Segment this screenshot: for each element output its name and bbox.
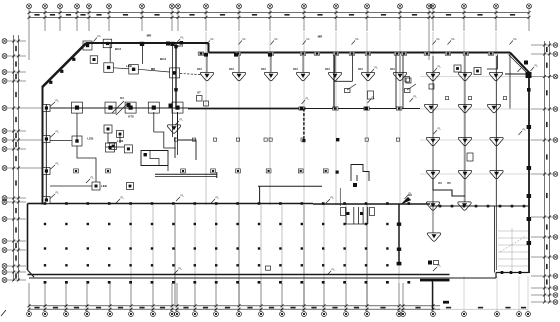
label FL leader: [518, 65, 526, 73]
vertical grid line lower: [152, 205, 154, 306]
dimension text mark: [53, 307, 58, 309]
bottom grid line 2: [44, 283, 46, 312]
stair dashed arrow: [500, 236, 526, 252]
svg-text:FL: FL: [216, 196, 220, 200]
svg-text:D13: D13: [197, 68, 202, 71]
hall column dot: [365, 223, 367, 225]
vertical grid line lower: [130, 205, 132, 306]
dim tick: [543, 275, 546, 278]
fire-damper symbol: [264, 72, 277, 80]
dim tick: [432, 11, 435, 14]
dim tick: [543, 236, 546, 239]
dashed wire to triangle: [180, 74, 202, 75]
bottom grid bubble 13: [259, 312, 264, 317]
building outline top edge right part: [209, 52, 511, 54]
dim tick: [17, 71, 20, 74]
small column y139: [174, 138, 177, 141]
dimension text mark: [349, 14, 354, 16]
top grid line 2: [44, 9, 46, 31]
dim tick: [17, 265, 20, 268]
dim tick: [28, 16, 31, 19]
right grid bubble 10: [553, 274, 558, 279]
svg-text:FL: FL: [179, 267, 183, 271]
bottom edge continues thin: [450, 277, 497, 279]
hall column dot: [258, 264, 260, 266]
dim tick: [495, 16, 498, 19]
bottom grid line 15: [303, 283, 305, 312]
dimension text mark: [154, 14, 159, 16]
bottom edge column dot: [322, 281, 325, 284]
dim tick: [86, 304, 89, 307]
dimension text mark: [15, 156, 17, 161]
bottom dimension line lower: [29, 308, 440, 310]
dimension text mark: [546, 63, 548, 68]
dim tick: [269, 16, 272, 19]
label FL leader: [327, 268, 335, 276]
dim tick: [12, 148, 15, 151]
dimension text mark: [50, 14, 55, 16]
top grid line 16: [399, 9, 401, 31]
left grid line 8: [7, 148, 26, 150]
wall x=259.6 down: [259, 186, 261, 204]
dim tick: [12, 71, 15, 74]
tick on y206 wall: [511, 205, 514, 208]
wall top dot: [129, 202, 132, 205]
dim tick: [345, 304, 348, 307]
svg-text:LEB: LEB: [126, 64, 132, 68]
dimension text mark: [521, 307, 526, 309]
top grid line 21: [528, 9, 530, 31]
fire-damper symbol: [232, 72, 245, 80]
box on diagonal: [90, 56, 98, 64]
bottom edge column dot: [279, 281, 282, 284]
label FL leader: [405, 192, 413, 200]
dimension text mark: [284, 14, 289, 16]
vertical grid line lower: [323, 205, 325, 306]
dim tick: [215, 308, 218, 311]
dim tick: [152, 304, 155, 307]
dimension text mark: [15, 142, 17, 147]
hall column dot: [194, 264, 196, 266]
box at (96,186): [92, 182, 100, 190]
dim tick: [176, 304, 179, 307]
dim tick: [109, 308, 112, 311]
dimension text mark: [546, 279, 548, 284]
dimension text mark: [311, 307, 316, 309]
bottom grid bubble 21: [431, 312, 436, 317]
room wall x=334: [333, 53, 335, 109]
column: [454, 65, 461, 72]
small box: [503, 97, 506, 100]
dim tick: [463, 11, 466, 14]
wall column tick: [365, 52, 371, 55]
svg-text:FL: FL: [438, 65, 442, 69]
small column y171: [106, 169, 111, 173]
box at (110,147): [106, 143, 115, 152]
right grid line 6: [531, 173, 553, 175]
dim tick: [432, 308, 435, 311]
right grid bubble 9: [553, 255, 558, 260]
svg-text:FL: FL: [306, 97, 310, 101]
dim tick: [548, 301, 551, 304]
restroom wall bottom: [346, 223, 368, 225]
hall column dot: [386, 264, 388, 266]
dim tick: [548, 75, 551, 78]
dim tick: [463, 16, 466, 19]
bottom grid bubble 6: [129, 312, 134, 317]
label FL leader: [352, 37, 360, 45]
hall column dot: [194, 223, 196, 225]
bottom edge column dot: [215, 281, 218, 284]
hall column dot: [44, 264, 46, 266]
dimension text mark: [317, 14, 322, 16]
wall top dot: [215, 202, 218, 205]
fixture: [370, 208, 375, 216]
svg-text:D13: D13: [390, 68, 395, 71]
top grid line 19: [463, 9, 465, 31]
label FL leader: [433, 37, 441, 45]
left grid bubble 17: [2, 278, 7, 283]
label FL leader: [50, 162, 59, 170]
left small room walls near (140-168,150-171): [141, 151, 168, 166]
hall column dot: [65, 264, 67, 266]
box cluster c: [110, 143, 117, 150]
top grid bubble 13: [302, 4, 307, 9]
wall column tick: [396, 107, 402, 110]
top grid line 1: [28, 9, 30, 60]
dimension text mark: [118, 307, 123, 309]
dimension text mark: [34, 14, 39, 16]
label FL leader: [433, 264, 441, 272]
left grid line 10: [7, 197, 26, 199]
left grid bubble 9: [2, 166, 7, 171]
filled column on edge: [234, 53, 238, 57]
hall column dot: [279, 223, 281, 225]
svg-text:FL: FL: [307, 37, 311, 41]
wall column tick: [445, 52, 451, 55]
small rect (406,78): [405, 77, 410, 83]
hall column dot: [322, 264, 324, 266]
top grid line 4: [76, 9, 78, 31]
hall column dot: [301, 264, 303, 266]
dim tick: [548, 53, 551, 56]
bottom grid bubble 10: [193, 312, 198, 317]
dim tick: [44, 11, 47, 14]
wire y=140 left: [50, 140, 72, 142]
feeder wire along diagonal (thickened): [43, 44, 87, 88]
jumper diagonals near x=120: [112, 101, 124, 113]
dimension text mark: [415, 307, 420, 309]
dim tick: [428, 11, 431, 14]
restroom partitions: [345, 207, 347, 224]
wall column tick: [424, 52, 430, 55]
dim tick: [12, 55, 15, 58]
svg-text:FL: FL: [535, 64, 539, 68]
bottom grid bubble 19: [397, 312, 402, 317]
dim tick: [44, 308, 47, 311]
svg-text:D3: D3: [438, 181, 442, 185]
wire box on diagonal: [60, 70, 63, 73]
left grid bubble 6: [2, 129, 7, 134]
vertical grid line: [269, 32, 271, 205]
hall column dot: [172, 223, 174, 225]
hall column dot: [343, 247, 345, 249]
dim tick: [86, 308, 89, 311]
wall below chamfer x=510: [509, 53, 511, 109]
dim tick: [152, 308, 155, 311]
dimension text mark: [546, 47, 548, 52]
dimension text mark: [546, 244, 548, 249]
dim tick: [171, 16, 174, 19]
bottom edge column dot: [258, 281, 261, 284]
small column y171: [181, 169, 186, 173]
dimension text mark: [96, 14, 101, 16]
left grid bubble 11: [2, 200, 7, 205]
vertical grid line: [205, 32, 207, 205]
wall top dot: [87, 202, 90, 205]
dim tick: [171, 304, 174, 307]
svg-text:LOB: LOB: [117, 139, 123, 143]
hall column dot: [215, 247, 217, 249]
hall column dot: [151, 247, 153, 249]
dark column at wall joint: [300, 107, 304, 111]
left edge column: [43, 197, 50, 204]
hall top wall right part: [313, 203, 430, 205]
BA mark near (402,202): [402, 198, 411, 204]
bottom grid bubble 3: [64, 312, 69, 317]
wire box on diagonal: [72, 58, 75, 61]
right grid bubble 6: [553, 172, 558, 177]
bottom grid bubble 18: [365, 312, 370, 317]
dim tick: [12, 139, 15, 142]
fire-damper symbol: [426, 170, 439, 178]
wall top dot: [258, 202, 261, 205]
dimension text mark: [220, 14, 225, 16]
dimension text mark: [183, 307, 188, 309]
wall column tick: [394, 52, 400, 55]
svg-text:FL: FL: [243, 37, 247, 41]
hall column dot: [301, 223, 303, 225]
label FL leader: [175, 118, 183, 126]
left grid line 16: [7, 271, 26, 273]
left riser wire x=46: [45, 104, 47, 200]
dim tick: [548, 139, 551, 142]
small box: [445, 97, 448, 100]
bottom grid line 6: [130, 283, 132, 312]
wire y=68: [114, 68, 129, 69]
wire y=69 stub: [487, 68, 498, 70]
small column y139: [269, 138, 272, 141]
top grid bubble 9: [176, 4, 181, 9]
bottom edge column dot: [300, 281, 303, 284]
vertical grid line lower: [194, 205, 196, 306]
dim tick: [17, 240, 20, 243]
bottom grid bubble 22: [462, 312, 467, 317]
dim tick: [398, 304, 401, 307]
bottom grid bubble 16: [322, 312, 327, 317]
bottom grid line 22: [463, 276, 465, 312]
dimension text mark: [446, 307, 451, 309]
wall top dot: [44, 202, 47, 205]
dimension text mark: [96, 307, 101, 309]
horizontal grid line right: [420, 173, 531, 175]
dim tick: [44, 304, 47, 307]
small box (431,86): [429, 84, 434, 89]
wall y=186: [258, 185, 322, 187]
vertical grid line: [399, 32, 401, 205]
svg-text:FL: FL: [375, 66, 379, 70]
fire-damper symbol: [393, 72, 406, 80]
bottom grid bubble 5: [108, 312, 113, 317]
left grid line 7: [7, 139, 42, 141]
dark mark (337,172): [336, 171, 339, 174]
left edge column: [43, 136, 50, 143]
bottom dimension line upper: [29, 305, 440, 307]
label FL leader: [50, 191, 59, 199]
riser wire x=496: [496, 56, 498, 270]
hall column dot: [343, 223, 345, 225]
top grid bubble 5: [87, 4, 92, 9]
wall top dot: [172, 202, 175, 205]
top grid line 6: [108, 9, 110, 31]
svg-text:D13: D13: [229, 68, 234, 71]
svg-text:FL: FL: [331, 196, 335, 200]
door mark: [397, 262, 402, 266]
hall column dot: [65, 247, 67, 249]
fire-damper symbol: [328, 72, 341, 80]
bottom grid line 8: [171, 283, 173, 312]
dim tick: [177, 11, 180, 14]
right grid bubble 13: [553, 300, 558, 305]
hall top-left jog: [28, 203, 43, 205]
fire-damper symbol: [200, 72, 213, 80]
small column y139: [396, 138, 399, 141]
svg-text:MR: MR: [318, 35, 323, 39]
ramp line x=432.5: [432, 281, 434, 309]
svg-text:D4: D4: [120, 96, 124, 100]
bottom grid bubble 1: [27, 312, 32, 317]
bottom grid line 10: [194, 283, 196, 312]
dim tick: [171, 308, 174, 311]
dim tick: [141, 16, 144, 19]
small box (408,80): [406, 78, 411, 83]
svg-text:FL: FL: [514, 37, 518, 41]
dim tick: [402, 308, 405, 311]
bottom grid line 4: [86, 283, 88, 312]
bottom edge column dot: [343, 281, 346, 284]
bottom edge column dot: [86, 281, 89, 284]
wire (138,69)-(170,72): [139, 69, 170, 72]
box at (77,141): [72, 136, 82, 146]
box (133,69): [129, 65, 139, 75]
right room wall x=494.6: [494, 206, 496, 273]
bottom grid line 5: [109, 283, 111, 312]
dim tick: [109, 304, 112, 307]
bottom-right step vertical: [495, 273, 497, 279]
dim tick: [548, 108, 551, 111]
small column y139: [301, 138, 304, 141]
dim tick: [303, 11, 306, 14]
dimension text mark: [66, 14, 71, 16]
vertical grid line: [495, 32, 497, 205]
restroom detail squares: [347, 212, 350, 215]
dimension text mark: [139, 307, 144, 309]
dim tick: [543, 216, 546, 219]
label FL leader: [531, 64, 539, 72]
dim tick: [28, 308, 31, 311]
left grid bubble 4: [2, 79, 7, 84]
door mark: [397, 248, 401, 251]
left grid bubble 7: [2, 138, 7, 143]
dim tick: [205, 11, 208, 14]
small column y171: [236, 169, 241, 173]
bottom grid line 13: [260, 283, 262, 312]
horizontal grid line right: [420, 108, 531, 110]
svg-text:FL: FL: [56, 162, 60, 166]
dim tick: [141, 11, 144, 14]
top grid line 11: [238, 9, 240, 31]
dark mark in room: [144, 153, 147, 156]
bottom edge column dot: [386, 281, 389, 284]
wall stub x=340: [339, 188, 341, 206]
left grid bubble 10: [2, 196, 7, 201]
svg-text:FL: FL: [56, 99, 60, 103]
hall column dot: [322, 223, 324, 225]
svg-text:BC2: BC2: [115, 47, 121, 51]
bottom grid bubble 2: [43, 312, 48, 317]
dimension text mark: [15, 208, 17, 213]
label FL leader: [239, 37, 247, 45]
wall column tick: [299, 107, 305, 110]
label FL leader: [271, 37, 279, 45]
vertical grid line lower: [281, 205, 283, 306]
top grid line 10: [205, 9, 207, 31]
bottom grid line 19: [398, 283, 400, 312]
dim tick: [194, 304, 197, 307]
vertical grid line lower dark: [174, 205, 176, 306]
top grid bubble 4: [75, 4, 80, 9]
fire-damper symbol: [489, 72, 502, 80]
vertical wall x=173 upper-left: [172, 43, 174, 137]
room wall stub down: [167, 166, 169, 172]
dim tick: [17, 201, 20, 204]
column box on top edge: [103, 39, 112, 48]
svg-text:D13: D13: [261, 68, 266, 71]
wire row y=108: [46, 107, 188, 109]
hall column dot: [279, 264, 281, 266]
bottom grid bubble 23: [495, 312, 500, 317]
wall end cap: [216, 172, 218, 178]
dim tick: [238, 308, 241, 311]
dim tick: [269, 11, 272, 14]
riser wire x=465: [464, 56, 466, 202]
dim tick: [176, 308, 179, 311]
dim tick: [281, 308, 284, 311]
dimension text mark: [15, 133, 17, 138]
svg-text:FL: FL: [275, 37, 279, 41]
right grid bubble 5: [553, 138, 558, 143]
dimension text mark: [290, 307, 295, 309]
hall column dot: [343, 264, 345, 266]
dim tick: [495, 11, 498, 14]
svg-text:FL: FL: [121, 196, 125, 200]
label FL leader: [371, 66, 379, 74]
dim tick: [177, 16, 180, 19]
hall column dot: [44, 247, 46, 249]
wall column tick: [349, 52, 355, 55]
top grid bubble 17: [427, 4, 432, 9]
wall top dot: [365, 202, 368, 205]
